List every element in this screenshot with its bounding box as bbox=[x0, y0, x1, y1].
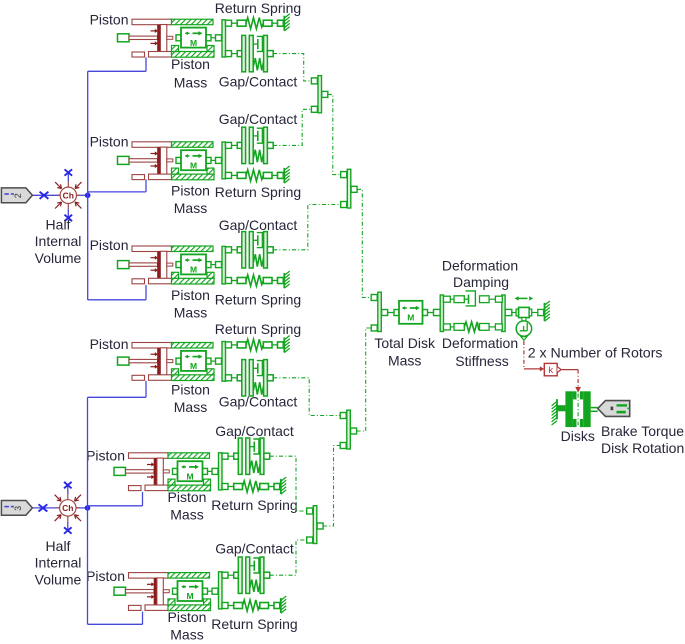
svg-text:Return Spring: Return Spring bbox=[215, 0, 301, 16]
svg-text:Internal: Internal bbox=[35, 555, 82, 571]
svg-text:Damping: Damping bbox=[453, 274, 509, 290]
svg-text:Gap/Contact: Gap/Contact bbox=[215, 423, 294, 439]
svg-text:Piston: Piston bbox=[86, 448, 125, 464]
svg-text:Ch: Ch bbox=[62, 503, 73, 513]
svg-text:Piston: Piston bbox=[168, 609, 207, 625]
svg-text:Mass: Mass bbox=[388, 353, 421, 369]
svg-text:M: M bbox=[186, 471, 193, 481]
svg-text:Piston: Piston bbox=[86, 568, 125, 584]
svg-text:Gap/Contact: Gap/Contact bbox=[219, 394, 298, 410]
svg-text:Mass: Mass bbox=[170, 627, 203, 643]
svg-text:Return Spring: Return Spring bbox=[211, 497, 297, 513]
svg-text:3: 3 bbox=[13, 506, 23, 511]
svg-text:Gap/Contact: Gap/Contact bbox=[219, 217, 298, 233]
svg-text:Mass: Mass bbox=[170, 507, 203, 523]
svg-text:M: M bbox=[190, 361, 197, 371]
svg-text:Return Spring: Return Spring bbox=[215, 321, 301, 337]
svg-text:Return Spring: Return Spring bbox=[211, 616, 297, 632]
svg-text:M: M bbox=[190, 38, 197, 48]
svg-text:Gap/Contact: Gap/Contact bbox=[219, 111, 298, 127]
svg-text:Disks: Disks bbox=[561, 428, 595, 444]
svg-text:Piston: Piston bbox=[90, 237, 129, 253]
svg-text:Mass: Mass bbox=[174, 399, 207, 415]
svg-text:Volume: Volume bbox=[35, 571, 82, 587]
svg-text:M: M bbox=[190, 160, 197, 170]
svg-text:Disk Rotation: Disk Rotation bbox=[601, 440, 684, 456]
svg-text:M: M bbox=[407, 313, 414, 323]
svg-text:Piston: Piston bbox=[171, 56, 210, 72]
svg-text:Volume: Volume bbox=[35, 250, 82, 266]
svg-text:Piston: Piston bbox=[90, 134, 129, 150]
svg-text:Deformation: Deformation bbox=[442, 258, 518, 274]
svg-text:Mass: Mass bbox=[174, 200, 207, 216]
svg-text:2 x Number of Rotors: 2 x Number of Rotors bbox=[528, 346, 663, 362]
svg-text:Piston: Piston bbox=[171, 183, 210, 199]
svg-text:Mass: Mass bbox=[174, 75, 207, 91]
svg-text:Internal: Internal bbox=[35, 233, 82, 249]
svg-text:Brake Torque: Brake Torque bbox=[601, 423, 684, 439]
svg-text:Stiffness: Stiffness bbox=[455, 353, 508, 369]
svg-text:Piston: Piston bbox=[90, 11, 129, 27]
svg-text:Total Disk: Total Disk bbox=[374, 335, 436, 351]
svg-text:Gap/Contact: Gap/Contact bbox=[219, 74, 298, 90]
svg-text:M: M bbox=[190, 265, 197, 275]
svg-text:Half: Half bbox=[46, 217, 71, 233]
svg-text:M: M bbox=[186, 591, 193, 601]
svg-text:Piston: Piston bbox=[171, 287, 210, 303]
svg-text:Gap/Contact: Gap/Contact bbox=[215, 541, 294, 557]
svg-text:Piston: Piston bbox=[90, 336, 129, 352]
svg-text:Piston: Piston bbox=[168, 489, 207, 505]
svg-text:Deformation: Deformation bbox=[442, 335, 518, 351]
svg-text:Return Spring: Return Spring bbox=[215, 184, 301, 200]
svg-text:Mass: Mass bbox=[174, 304, 207, 320]
svg-text:2: 2 bbox=[13, 193, 23, 198]
svg-text:Return Spring: Return Spring bbox=[215, 292, 301, 308]
svg-text:Piston: Piston bbox=[171, 382, 210, 398]
svg-text:Half: Half bbox=[46, 538, 71, 554]
svg-text:k: k bbox=[548, 365, 553, 376]
svg-text:Ch: Ch bbox=[63, 191, 74, 201]
